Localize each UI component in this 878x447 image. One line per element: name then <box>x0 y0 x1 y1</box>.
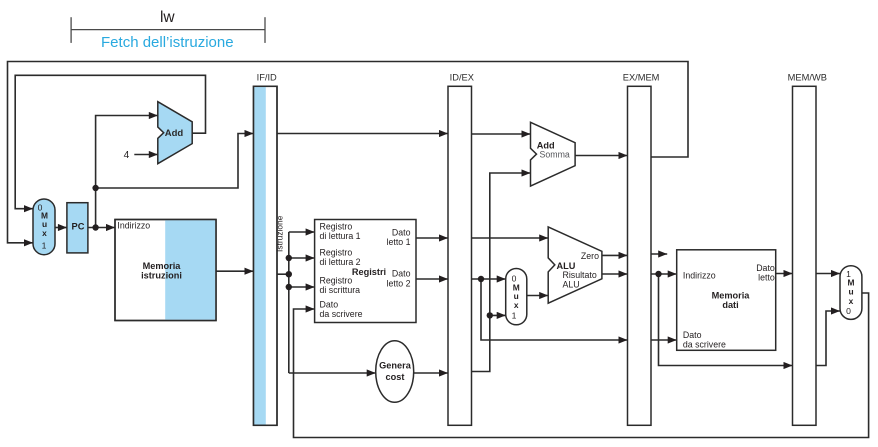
svg-text:MEM/WB: MEM/WB <box>788 72 827 82</box>
svg-text:Registro: Registro <box>320 275 353 285</box>
svg-text:Dato: Dato <box>756 263 775 273</box>
svg-text:Memoria: Memoria <box>712 291 751 301</box>
svg-text:Dato: Dato <box>392 228 411 238</box>
svg-text:Indirizzo: Indirizzo <box>683 270 716 280</box>
svg-text:letto 1: letto 1 <box>387 237 411 247</box>
svg-text:ID/EX: ID/EX <box>450 72 474 82</box>
svg-text:IF/ID: IF/ID <box>257 72 277 82</box>
svg-text:Zero: Zero <box>581 251 599 261</box>
svg-text:EX/MEM: EX/MEM <box>623 72 660 82</box>
svg-text:dati: dati <box>722 300 738 310</box>
svg-text:da scrivere: da scrivere <box>683 340 726 350</box>
svg-text:Registro: Registro <box>320 248 353 258</box>
svg-text:Add: Add <box>165 128 184 139</box>
svg-text:Indirizzo: Indirizzo <box>117 221 150 231</box>
svg-text:cost: cost <box>386 372 405 382</box>
svg-text:Dato: Dato <box>683 330 702 340</box>
svg-text:4: 4 <box>124 150 130 161</box>
svg-text:Dato: Dato <box>320 300 339 310</box>
svg-text:0: 0 <box>846 306 851 316</box>
svg-text:letto 2: letto 2 <box>387 278 411 288</box>
svg-text:di scrittura: di scrittura <box>320 285 361 295</box>
svg-text:x: x <box>42 228 47 238</box>
svg-text:Registri: Registri <box>352 267 386 277</box>
svg-text:1: 1 <box>42 240 47 250</box>
svg-text:x: x <box>514 300 519 310</box>
svg-text:PC: PC <box>72 221 85 231</box>
svg-text:istruzioni: istruzioni <box>141 270 182 280</box>
svg-text:ALU: ALU <box>563 279 580 289</box>
svg-text:da scrivere: da scrivere <box>320 309 363 319</box>
svg-text:letto: letto <box>758 273 775 283</box>
svg-text:1: 1 <box>512 311 517 321</box>
svg-text:di lettura 2: di lettura 2 <box>320 257 361 267</box>
svg-text:Istruzione: Istruzione <box>275 215 285 252</box>
svg-text:di lettura 1: di lettura 1 <box>320 231 361 241</box>
svg-text:Genera: Genera <box>379 361 412 371</box>
svg-text:Dato: Dato <box>392 269 411 279</box>
svg-text:x: x <box>849 296 854 306</box>
svg-text:lw: lw <box>160 9 175 26</box>
svg-text:Somma: Somma <box>540 149 570 159</box>
svg-text:Risultato: Risultato <box>563 270 597 280</box>
svg-text:Registro: Registro <box>320 221 353 231</box>
svg-text:Fetch dell’istruzione: Fetch dell’istruzione <box>101 34 234 51</box>
